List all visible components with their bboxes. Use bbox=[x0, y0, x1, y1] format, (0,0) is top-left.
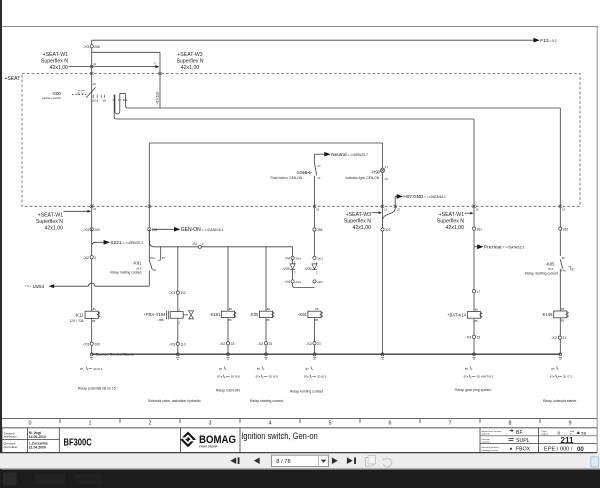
svg-text:42x1,00: 42x1,00 bbox=[353, 225, 372, 231]
svg-text:-V05: -V05 bbox=[282, 267, 290, 271]
svg-text:78: 78 bbox=[581, 431, 586, 436]
svg-text:1: 1 bbox=[89, 421, 92, 427]
svg-text:85: 85 bbox=[92, 319, 96, 323]
svg-text:-X3: -X3 bbox=[169, 290, 176, 295]
svg-text:23: 23 bbox=[317, 342, 321, 346]
svg-text:-X2: -X2 bbox=[257, 341, 264, 346]
svg-text:30 /8.2: 30 /8.2 bbox=[317, 375, 327, 379]
svg-text:+SEAT-W3: +SEAT-W3 bbox=[177, 52, 203, 58]
svg-text:Total: Total bbox=[570, 430, 575, 433]
svg-text:impianto: impianto bbox=[482, 433, 491, 436]
svg-text:86: 86 bbox=[267, 307, 271, 311]
svg-text:Superflex N: Superflex N bbox=[176, 59, 203, 65]
svg-text:30: 30 bbox=[153, 268, 157, 272]
svg-text:-K81: -K81 bbox=[133, 261, 143, 266]
svg-text:FAYAT GROUP: FAYAT GROUP bbox=[199, 445, 217, 449]
svg-text:+SEAT: +SEAT bbox=[5, 76, 21, 82]
svg-text:11: 11 bbox=[384, 208, 387, 212]
svg-text:268: 268 bbox=[94, 45, 100, 49]
svg-text:42x1,00: 42x1,00 bbox=[45, 226, 64, 232]
svg-text:21.04.2009: 21.04.2009 bbox=[29, 446, 46, 450]
svg-text:Page: Page bbox=[542, 431, 548, 433]
svg-text:11: 11 bbox=[93, 62, 96, 66]
svg-text:9: 9 bbox=[569, 421, 572, 427]
svg-text:Indicator light, GEN-ON: Indicator light, GEN-ON bbox=[346, 176, 380, 180]
svg-text:Push button, GEN-ON: Push button, GEN-ON bbox=[270, 176, 302, 180]
svg-text:-X3: -X3 bbox=[83, 44, 90, 49]
svg-text:X1: X1 bbox=[385, 165, 389, 169]
svg-text:Relay, potential 2B on 15: Relay, potential 2B on 15 bbox=[78, 386, 116, 390]
svg-text:87a: 87a bbox=[150, 256, 155, 260]
svg-text:+FRA-Y194: +FRA-Y194 bbox=[144, 312, 167, 317]
svg-text:14: 14 bbox=[562, 208, 566, 212]
svg-text:Relay, holding contact: Relay, holding contact bbox=[290, 390, 323, 394]
svg-text:/8.5: /8.5 bbox=[136, 266, 141, 270]
svg-text:00: 00 bbox=[577, 447, 584, 453]
svg-text:funzione: funzione bbox=[482, 442, 491, 444]
svg-text:-X3: -X3 bbox=[169, 341, 176, 346]
svg-text:87: 87 bbox=[572, 267, 576, 271]
svg-text:42x1,00: 42x1,00 bbox=[50, 65, 69, 71]
svg-text:86: 86 bbox=[561, 307, 565, 311]
svg-text:Superflex N: Superflex N bbox=[36, 219, 63, 225]
svg-text:BF300C: BF300C bbox=[64, 437, 93, 448]
svg-text:BOMAG: BOMAG bbox=[199, 434, 236, 446]
svg-text:87: 87 bbox=[80, 367, 84, 371]
svg-text:SUPL: SUPL bbox=[516, 438, 530, 444]
svg-text:86: 86 bbox=[229, 307, 233, 311]
svg-text:-K81: -K81 bbox=[298, 312, 308, 317]
svg-text:209: 209 bbox=[94, 342, 100, 346]
svg-text:18: 18 bbox=[103, 99, 107, 103]
svg-text:8 / 78: 8 / 78 bbox=[276, 459, 291, 465]
svg-text:87: 87 bbox=[257, 367, 261, 371]
svg-text:265: 265 bbox=[152, 228, 158, 232]
svg-text:30 +BAT/6.3: 30 +BAT/6.3 bbox=[477, 375, 494, 379]
svg-text:-X3: -X3 bbox=[465, 334, 472, 339]
svg-text:14/1: 14/1 bbox=[295, 256, 301, 260]
svg-text:86: 86 bbox=[315, 307, 319, 311]
svg-text:Relay, glow plug system: Relay, glow plug system bbox=[455, 388, 491, 392]
svg-text:20: 20 bbox=[93, 82, 97, 86]
svg-text:16: 16 bbox=[316, 208, 320, 212]
svg-text:14/2: 14/2 bbox=[295, 280, 301, 284]
svg-text:87: 87 bbox=[162, 256, 166, 260]
svg-text:-X2: -X2 bbox=[551, 335, 558, 340]
svg-text:13: 13 bbox=[317, 164, 321, 168]
svg-text:+SEAT-W1: +SEAT-W1 bbox=[439, 212, 465, 218]
svg-text:87: 87 bbox=[219, 367, 223, 371]
svg-text:87a: 87a bbox=[550, 375, 555, 379]
svg-text:-X2: -X2 bbox=[306, 341, 313, 346]
svg-text:Superflex N: Superflex N bbox=[437, 218, 464, 224]
svg-text:X2: X2 bbox=[385, 177, 389, 181]
svg-text:5: 5 bbox=[329, 421, 332, 427]
svg-text:- 15/54: - 15/54 bbox=[30, 284, 45, 289]
svg-text:15: 15 bbox=[397, 208, 401, 212]
svg-text:-X2: -X2 bbox=[219, 341, 226, 346]
svg-text:-41S:11D: -41S:11D bbox=[156, 91, 160, 105]
svg-text:Relay, holding contact: Relay, holding contact bbox=[110, 271, 141, 275]
svg-text:87a: 87a bbox=[304, 375, 309, 379]
svg-text:14/1: 14/1 bbox=[317, 256, 323, 260]
svg-text:-X2: -X2 bbox=[83, 255, 90, 260]
svg-text:Mounting location: Mounting location bbox=[482, 446, 500, 449]
svg-text:-K161: -K161 bbox=[209, 312, 221, 317]
svg-text:110: 110 bbox=[180, 342, 185, 346]
svg-text:-X4: -X4 bbox=[284, 280, 290, 284]
svg-text:266: 266 bbox=[317, 228, 323, 232]
svg-text:211: 211 bbox=[560, 436, 574, 445]
svg-text:7: 7 bbox=[449, 421, 452, 427]
svg-text:6: 6 bbox=[389, 421, 392, 427]
svg-text:16: 16 bbox=[476, 208, 480, 212]
svg-text:+BAT-K14: +BAT-K14 bbox=[447, 312, 467, 317]
svg-text:87a: 87a bbox=[464, 375, 469, 379]
svg-text:85: 85 bbox=[561, 318, 565, 322]
svg-text:Solenoid valve, activation hyd: Solenoid valve, activation hydraulic bbox=[148, 399, 201, 403]
svg-text:-X2: -X2 bbox=[192, 242, 197, 246]
svg-text:B: B bbox=[78, 92, 80, 96]
svg-text:-H90: -H90 bbox=[371, 169, 381, 174]
svg-text:-K05: -K05 bbox=[250, 312, 260, 317]
svg-text:EPE / 000 /: EPE / 000 / bbox=[544, 447, 573, 453]
svg-text:Ignition switch: Ignition switch bbox=[42, 96, 61, 100]
svg-text:14: 14 bbox=[317, 176, 321, 180]
svg-text:-S21B-1: -S21B-1 bbox=[296, 170, 312, 175]
svg-text:102: 102 bbox=[180, 291, 186, 295]
svg-text:-V06: -V06 bbox=[304, 267, 312, 271]
svg-text:86: 86 bbox=[93, 307, 97, 311]
svg-text:-K145: -K145 bbox=[541, 312, 553, 317]
svg-text:323: 323 bbox=[385, 228, 391, 232]
svg-text:30 /8.9: 30 /8.9 bbox=[269, 375, 279, 379]
svg-text:2: 2 bbox=[149, 421, 152, 427]
svg-text:85: 85 bbox=[267, 318, 271, 322]
svg-text:Function: Function bbox=[482, 438, 491, 441]
svg-text:26B: 26B bbox=[158, 318, 163, 322]
svg-text:0: 0 bbox=[29, 421, 32, 427]
svg-text:-X3: -X3 bbox=[83, 227, 90, 232]
svg-text:261: 261 bbox=[477, 227, 483, 231]
svg-text:23: 23 bbox=[231, 342, 235, 346]
svg-text:86: 86 bbox=[475, 307, 479, 311]
svg-text:42x1,00: 42x1,00 bbox=[181, 65, 200, 71]
svg-text:-X3: -X3 bbox=[83, 341, 90, 346]
svg-text:85: 85 bbox=[475, 319, 479, 323]
svg-text:21: 21 bbox=[93, 207, 97, 211]
svg-text:montaggio locale: montaggio locale bbox=[482, 449, 499, 452]
svg-text:Superflex N: Superflex N bbox=[41, 59, 68, 65]
svg-text:Relay, GEN-ON: Relay, GEN-ON bbox=[216, 389, 240, 393]
svg-text:controllato: controllato bbox=[3, 445, 17, 449]
svg-text:-X4: -X4 bbox=[284, 256, 290, 260]
svg-text:Relay, starting current: Relay, starting current bbox=[525, 272, 558, 276]
svg-text:14/2: 14/2 bbox=[317, 280, 323, 284]
svg-text:realizzato: realizzato bbox=[4, 435, 17, 439]
svg-text:4: 4 bbox=[269, 421, 272, 427]
svg-text:+SEAT-W3: +SEAT-W3 bbox=[346, 212, 372, 218]
svg-text:Higher-level function: Higher-level function bbox=[482, 430, 503, 433]
svg-text:30 /9.1: 30 /9.1 bbox=[93, 367, 103, 371]
svg-text:BF: BF bbox=[516, 430, 523, 436]
svg-text:H07:GND = ==DATA/16.1: H07:GND = ==DATA/16.1 bbox=[403, 194, 446, 199]
svg-text:Source Central Name: Source Central Name bbox=[96, 353, 134, 357]
svg-text:87a: 87a bbox=[256, 375, 261, 379]
svg-text:17: 17 bbox=[477, 290, 481, 294]
svg-text:8: 8 bbox=[509, 421, 512, 427]
svg-text:/9.4: /9.4 bbox=[548, 267, 553, 271]
svg-text:Relay, solenoid starter: Relay, solenoid starter bbox=[543, 399, 577, 403]
svg-text:42x1,00: 42x1,00 bbox=[446, 225, 465, 231]
svg-text:263: 263 bbox=[94, 228, 100, 232]
svg-text:262: 262 bbox=[563, 227, 569, 231]
svg-text:4: 4 bbox=[94, 256, 96, 260]
svg-text:-K05: -K05 bbox=[546, 261, 556, 266]
svg-text:30 /7.2: 30 /7.2 bbox=[563, 375, 573, 379]
svg-text:87a: 87a bbox=[218, 375, 223, 379]
svg-text:30: 30 bbox=[562, 256, 566, 260]
svg-text:87: 87 bbox=[306, 367, 310, 371]
svg-text:23: 23 bbox=[269, 342, 273, 346]
svg-text:14.06.2013: 14.06.2013 bbox=[29, 435, 46, 439]
svg-text:87: 87 bbox=[551, 367, 555, 371]
svg-text:85: 85 bbox=[315, 318, 319, 322]
svg-text:+SEAT-W1: +SEAT-W1 bbox=[38, 213, 64, 219]
svg-text:12V / 70A: 12V / 70A bbox=[70, 319, 85, 323]
svg-text:FBOX: FBOX bbox=[516, 446, 531, 452]
svg-text:Superflex N: Superflex N bbox=[344, 218, 371, 224]
svg-text:Ignition switch, Gen-on: Ignition switch, Gen-on bbox=[241, 431, 318, 442]
svg-text:3: 3 bbox=[209, 421, 212, 427]
svg-text:87: 87 bbox=[465, 367, 469, 371]
svg-text:85: 85 bbox=[229, 318, 233, 322]
svg-text:23: 23 bbox=[563, 336, 567, 340]
svg-text:+SEAT-W1: +SEAT-W1 bbox=[43, 52, 69, 58]
svg-text:-K11: -K11 bbox=[75, 313, 85, 318]
svg-text:18: 18 bbox=[477, 335, 481, 339]
svg-text:30 /9.8: 30 /9.8 bbox=[231, 375, 241, 379]
svg-text:11/14: 11/14 bbox=[92, 99, 99, 103]
svg-text:Relay, starting current: Relay, starting current bbox=[250, 399, 283, 403]
svg-text:87a: 87a bbox=[561, 268, 566, 272]
svg-text:pagina: pagina bbox=[542, 434, 549, 436]
